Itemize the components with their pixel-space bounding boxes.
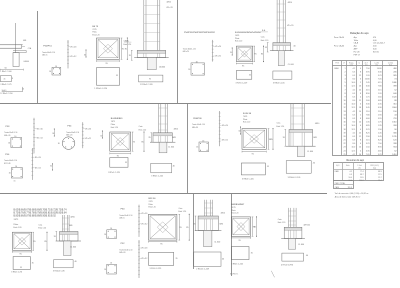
- svg-text:10.0: 10.0: [349, 177, 352, 179]
- svg-text:7.50: 7.50: [378, 143, 382, 145]
- footing B45-B60 title block: [235, 32, 262, 43]
- footing B4-B58 elevation rect: [108, 158, 128, 174]
- svg-text:20.5: 20.5: [360, 177, 363, 179]
- svg-text:(kg): (kg): [389, 64, 392, 66]
- pier B32-56 cap: [195, 216, 221, 231]
- pier B6-75 N.A. mark: [124, 39, 131, 42]
- pile detail P54 round round section: [58, 137, 75, 150]
- svg-text:9.70: 9.70: [366, 143, 370, 145]
- svg-text:Vol. de concreto: 4,04 (C-30): Vol. de concreto: 4,04 (C-30) = 10,82 m³: [335, 192, 369, 195]
- svg-text:16: 16: [104, 269, 106, 271]
- svg-text:Peso CA-60: Peso CA-60: [334, 45, 344, 48]
- footing B32-56 bottom dim 95: [149, 241, 177, 246]
- svg-text:B.05/.56: B.05/.56: [243, 113, 252, 115]
- svg-text:35: 35: [176, 258, 178, 260]
- svg-text:Está 1.20: Está 1.20: [261, 39, 269, 42]
- pile detail P54-P62 section square: [188, 61, 204, 75]
- panel divider horizontal lower: [0, 193, 327, 195]
- footing B32-56 plan square: [149, 214, 177, 240]
- svg-text:74: 74: [394, 79, 396, 81]
- svg-text:5.60: 5.60: [378, 96, 382, 98]
- footing B65 dim 95 right: [32, 232, 36, 250]
- pier B4-B58 left dim 35: [148, 133, 152, 142]
- svg-text:97.5: 97.5: [378, 174, 381, 176]
- svg-text:580: 580: [393, 132, 396, 134]
- svg-text:7.80: 7.80: [366, 114, 370, 116]
- svg-text:15: 15: [343, 118, 345, 120]
- pier B45 leader labels: [287, 2, 293, 27]
- svg-text:88: 88: [394, 100, 396, 102]
- svg-text:74/75: 74/75: [231, 207, 235, 209]
- pile detail P60 column elevation: [138, 205, 147, 237]
- svg-text:8.0: 8.0: [353, 143, 356, 145]
- footing B43 bottom dim 95: [231, 237, 250, 242]
- footing B65 dim 85: [44, 232, 47, 251]
- svg-text:Ø5 c/12: Ø5 c/12: [70, 56, 76, 58]
- footing B43 group title block: [231, 204, 245, 215]
- svg-text:Cota: Cota: [261, 36, 265, 39]
- svg-text:B.75/B.76/B.77/B.78/B.79/B.80/: B.75/B.76/B.77/B.78/B.79/B.80/B.81/B.82/…: [14, 212, 68, 214]
- svg-text:4.2: 4.2: [353, 68, 356, 70]
- panel divider vertical bottom-2: [231, 194, 233, 277]
- pile detail P52 column elevation: [138, 240, 147, 278]
- svg-text:Ø5 c/20: Ø5 c/20: [141, 213, 147, 215]
- steel table frame: [333, 61, 398, 156]
- svg-text:6.3: 6.3: [353, 75, 356, 77]
- svg-text:6.3: 6.3: [349, 174, 351, 176]
- svg-text:B6 75: B6 75: [92, 26, 98, 28]
- footing B32-56 title block: [149, 198, 157, 209]
- svg-text:12: 12: [359, 75, 361, 77]
- svg-text:6.3: 6.3: [353, 71, 356, 73]
- svg-text:Aço: Aço: [354, 36, 357, 39]
- svg-text:2064: 2064: [392, 107, 396, 109]
- svg-text:3 R6x3 C-175: 3 R6x3 C-175: [0, 84, 11, 86]
- svg-text:B43/B34/B67: B43/B34/B67: [231, 204, 245, 206]
- svg-text:88.3: 88.3: [378, 171, 381, 173]
- svg-text:9.45: 9.45: [378, 136, 382, 138]
- svg-text:POS: POS: [335, 62, 338, 64]
- svg-text:6.3: 6.3: [353, 96, 356, 98]
- pile detail P64/P36 column elevation: [219, 111, 228, 146]
- svg-text:4.60: 4.60: [378, 150, 382, 152]
- svg-text:40: 40: [173, 165, 175, 167]
- footing B32-56 dim 85: [186, 214, 189, 241]
- steel table data rows: [334, 67, 397, 156]
- beam detail lower dim with hook: [2, 87, 24, 92]
- svg-text:35: 35: [249, 75, 251, 77]
- footing B05-56 bottom dim 95: [242, 151, 266, 156]
- svg-text:CL 600: CL 600: [214, 241, 220, 243]
- svg-text:8Ø6: 8Ø6: [172, 137, 175, 139]
- svg-text:2: 2: [345, 71, 346, 73]
- footing B45 elevation rect: [236, 71, 252, 85]
- svg-text:Está 1.20: Está 1.20: [111, 126, 118, 129]
- svg-text:16: 16: [49, 71, 51, 73]
- pier B65 rebar bar detail: [53, 260, 73, 273]
- panel divider horizontal upper: [0, 103, 331, 105]
- footing B05-56 title block: [243, 113, 252, 124]
- svg-text:3 R7x5 C-129: 3 R7x5 C-129: [236, 82, 248, 84]
- svg-text:Está 1.20: Está 1.20: [139, 129, 147, 132]
- pile detail P64/P36 dim 34: [238, 127, 241, 135]
- svg-text:Cota: Cota: [278, 218, 282, 221]
- svg-text:6.3: 6.3: [353, 114, 356, 116]
- svg-text:AB.PILR 1: AB.PILR 1: [230, 272, 238, 275]
- pier B4-B58 column stub: [159, 142, 174, 153]
- svg-text:B32.56: B32.56: [149, 198, 157, 200]
- svg-text:CA50: CA50: [334, 67, 339, 70]
- panel divider vertical mid-band: [187, 104, 189, 194]
- svg-text:Ø5 c/20: Ø5 c/20: [85, 128, 91, 130]
- footing B32-56 elevation rect: [149, 252, 178, 270]
- svg-text:2.10: 2.10: [378, 111, 382, 113]
- svg-text:3 R7x5 C-129: 3 R7x5 C-129: [108, 172, 120, 174]
- svg-text:Ø5 c/12: Ø5 c/12: [141, 258, 147, 260]
- svg-text:3.95: 3.95: [366, 71, 370, 73]
- svg-text:Área de forma total: 109,35 m²: Área de forma total: 109,35 m²: [335, 195, 361, 198]
- svg-text:P64/P36: P64/P36: [193, 118, 202, 120]
- footing B45 plan square: [236, 46, 252, 62]
- svg-text:vem (4+4)x1,7: vem (4+4)x1,7: [373, 43, 385, 45]
- pier B05-56 left dim 35: [283, 130, 287, 147]
- svg-text:8: 8: [360, 71, 361, 73]
- svg-text:PESO(+10%): PESO(+10%): [370, 165, 379, 167]
- svg-text:4Ø10: 4Ø10: [315, 123, 319, 125]
- pile detail P50/P51 dim 34: [84, 50, 87, 58]
- svg-text:CA 600: CA 600: [159, 66, 165, 69]
- svg-text:Cota: Cota: [179, 207, 183, 210]
- svg-text:35: 35: [116, 75, 118, 77]
- svg-text:52: 52: [394, 89, 396, 91]
- footing B45 bottom dim 95: [236, 63, 252, 68]
- pier B65 leader labels: [69, 216, 75, 227]
- pier B6-75 column stub: [147, 58, 165, 70]
- pier B32-56 bars: [204, 200, 213, 216]
- pile detail P60 section square: [104, 228, 116, 238]
- svg-text:1.35: 1.35: [378, 125, 382, 127]
- svg-text:4.2: 4.2: [349, 171, 351, 173]
- svg-text:4,60: 4,60: [373, 40, 377, 42]
- beam detail bottom dim 50: [0, 68, 23, 71]
- pile detail P53 title: [4, 126, 17, 137]
- svg-text:Está 1.20: Está 1.20: [231, 212, 238, 215]
- pier B4-B58 leader labels: [172, 129, 178, 139]
- svg-text:Ø5 c/12: Ø5 c/12: [222, 140, 228, 142]
- footing B6-75 plan square: [97, 38, 120, 59]
- svg-text:Pilota: Pilota: [231, 209, 235, 212]
- svg-text:4.60: 4.60: [366, 118, 370, 120]
- svg-text:6,00: 6,00: [373, 49, 377, 51]
- svg-text:CA-B: CA-B: [354, 42, 359, 45]
- footing B4-B58 dim 85: [141, 132, 144, 152]
- svg-text:R12 1 Ø6: R12 1 Ø6: [4, 163, 11, 165]
- svg-text:40: 40: [293, 46, 295, 48]
- footing B4-B58 bottom dim 95: [110, 153, 131, 158]
- svg-text:16: 16: [22, 88, 24, 90]
- summary table text: [335, 164, 382, 189]
- footing B65 plan square: [12, 232, 31, 250]
- svg-text:40: 40: [306, 255, 308, 257]
- svg-text:14: 14: [359, 122, 361, 124]
- footing B4-B58 dim 95 right: [132, 132, 136, 151]
- svg-text:4Ø10: 4Ø10: [167, 1, 171, 3]
- svg-text:16: 16: [359, 86, 361, 88]
- svg-text:Está 1.20: Está 1.20: [38, 227, 46, 230]
- footing B43 cota label: [278, 218, 286, 224]
- svg-text:35: 35: [32, 263, 34, 265]
- svg-text:22: 22: [343, 143, 345, 145]
- svg-text:6.85: 6.85: [378, 100, 382, 102]
- steel list rows: [334, 36, 385, 56]
- svg-text:41: 41: [4, 78, 6, 80]
- svg-text:6Ø6 c/20: 6Ø6 c/20: [183, 51, 189, 53]
- pier B32-56 rebar bar detail: [194, 252, 221, 270]
- svg-text:Cota: Cota: [38, 223, 42, 226]
- svg-text:4: 4: [345, 79, 346, 81]
- pier B4-B58 cap: [150, 133, 175, 142]
- svg-text:16: 16: [110, 228, 112, 230]
- steel table header: [335, 61, 393, 66]
- svg-text:CL 600: CL 600: [288, 64, 294, 66]
- svg-text:2: 2: [360, 82, 361, 84]
- svg-text:6Ø6 c/20: 6Ø6 c/20: [119, 252, 125, 254]
- svg-text:23: 23: [343, 147, 345, 149]
- pile detail P54-P62 title: [183, 32, 216, 53]
- beam detail step lines: [13, 47, 26, 53]
- svg-text:7.05: 7.05: [378, 79, 382, 81]
- beam detail top flange lines: [0, 45, 23, 48]
- svg-text:Pilota: Pilota: [111, 123, 115, 126]
- svg-text:12.5: 12.5: [352, 129, 356, 131]
- pile detail P54 round column elevation: [82, 122, 91, 148]
- svg-text:985: 985: [393, 75, 396, 77]
- footing B65 bottom dim 95: [12, 251, 31, 256]
- svg-text:8: 8: [360, 118, 361, 120]
- svg-text:8.25: 8.25: [366, 132, 370, 134]
- pile detail P50 lower title: [4, 154, 17, 165]
- footing B45 dim 85: [261, 46, 264, 63]
- pier B65 bars: [62, 215, 69, 232]
- svg-text:Ø5 c/20: Ø5 c/20: [222, 125, 228, 127]
- pier B65 left dim 35: [54, 232, 58, 242]
- pile detail P50/P51 column elevation: [67, 40, 76, 68]
- svg-text:74/75: 74/75: [92, 29, 96, 31]
- svg-text:4.2: 4.2: [353, 154, 356, 156]
- svg-text:6.3: 6.3: [353, 118, 356, 120]
- pier B43 cap: [281, 227, 305, 238]
- pile detail P50 lower dim 34: [50, 163, 53, 170]
- svg-text:904: 904: [393, 147, 396, 149]
- footing B6-75 elevation rect: [94, 68, 119, 90]
- svg-text:Aço: Aço: [354, 45, 357, 48]
- svg-text:1.20: 1.20: [378, 93, 382, 95]
- svg-text:B4-B58/B61: B4-B58/B61: [111, 118, 124, 120]
- svg-text:7.80: 7.80: [378, 86, 382, 88]
- svg-text:CA 600: CA 600: [23, 60, 29, 63]
- svg-text:10: 10: [359, 147, 361, 149]
- svg-text:191.3: 191.3: [348, 187, 352, 189]
- svg-text:CL 600: CL 600: [168, 146, 174, 148]
- pile detail P54-P62 column elevation: [212, 40, 221, 62]
- footing B43 dim 85: [254, 216, 257, 236]
- svg-text:79.4: 79.4: [378, 180, 381, 182]
- svg-text:4Ø7100: 4Ø7100: [304, 225, 310, 227]
- footing B05-56 plan square: [242, 129, 266, 150]
- svg-text:8Ø6: 8Ø6: [69, 225, 72, 227]
- stray leader mark bottom: [271, 271, 274, 278]
- svg-text:4: 4: [360, 129, 361, 131]
- svg-text:4.15: 4.15: [366, 89, 370, 91]
- svg-text:B.65/B.66/B.67/B.68/B.69/B.70/: B.65/B.66/B.67/B.68/B.69/B.70/B.71/B.72/…: [14, 209, 68, 211]
- svg-text:120.2: 120.2: [359, 180, 363, 182]
- svg-text:Ø5 c/12: Ø5 c/12: [35, 167, 41, 169]
- svg-text:FSP 17: FSP 17: [354, 54, 360, 56]
- panel divider vertical top-middle: [177, 0, 179, 104]
- svg-text:4: 4: [360, 150, 361, 152]
- pile detail P52 section square: [104, 263, 116, 274]
- svg-text:4.15: 4.15: [378, 82, 382, 84]
- svg-text:CL 600: CL 600: [298, 244, 304, 246]
- svg-text:1310: 1310: [392, 122, 396, 124]
- svg-text:Ø5 c/15: Ø5 c/15: [287, 25, 293, 27]
- footing B65 cota label: [38, 223, 46, 229]
- svg-text:6.3: 6.3: [353, 136, 356, 138]
- svg-text:12 R6x5 C-150: 12 R6x5 C-150: [0, 93, 12, 95]
- svg-text:16: 16: [110, 263, 112, 265]
- svg-text:74/75: 74/75: [111, 121, 115, 123]
- svg-text:8Ø6: 8Ø6: [313, 137, 316, 139]
- svg-text:16: 16: [14, 181, 16, 183]
- svg-text:5.60: 5.60: [366, 100, 370, 102]
- footing B6-75 dim 95 right: [121, 38, 125, 59]
- svg-text:16: 16: [15, 166, 17, 168]
- svg-text:12.5: 12.5: [352, 86, 356, 88]
- svg-text:40: 40: [222, 258, 224, 260]
- svg-text:5: 5: [345, 82, 346, 84]
- svg-text:35: 35: [125, 162, 127, 164]
- svg-text:2.45: 2.45: [378, 132, 382, 134]
- svg-text:Ø5 c/15: Ø5 c/15: [167, 7, 173, 9]
- svg-text:74/75: 74/75: [14, 219, 19, 221]
- svg-text:da T: da T: [365, 62, 368, 64]
- svg-text:3.95: 3.95: [378, 118, 382, 120]
- svg-text:Resumo do aço: Resumo do aço: [347, 159, 365, 162]
- pier B65 cap: [57, 232, 82, 242]
- svg-text:2Ø6 c/5: 2Ø6 c/5: [119, 218, 124, 220]
- pier B43 rebar bar detail: [281, 253, 304, 266]
- svg-text:Está 1.20: Está 1.20: [92, 33, 99, 36]
- svg-text:N.A.: N.A.: [125, 39, 129, 42]
- svg-text:3 R10x5 C-96: 3 R10x5 C-96: [53, 271, 65, 273]
- svg-text:9: 9: [345, 96, 346, 98]
- svg-text:62: 62: [394, 150, 396, 152]
- svg-text:Está 1.20: Está 1.20: [149, 206, 156, 209]
- pier B43 leader labels: [304, 225, 310, 227]
- svg-text:16: 16: [188, 69, 190, 71]
- svg-text:Ø5 c/12: Ø5 c/12: [37, 137, 43, 139]
- svg-text:3.30: 3.30: [366, 104, 370, 106]
- svg-text:4.35: 4.35: [378, 104, 382, 106]
- svg-text:3 R8x5 C-105: 3 R8x5 C-105: [151, 175, 163, 177]
- svg-text:N.A.: N.A.: [262, 29, 266, 32]
- svg-text:6.85: 6.85: [366, 125, 370, 127]
- svg-text:4 R7x5 S-7R6: 4 R7x5 S-7R6: [281, 264, 293, 266]
- pier B05-56 column stub: [297, 146, 313, 156]
- pile detail P52 title: [119, 243, 132, 254]
- svg-text:480: 480: [393, 68, 396, 70]
- svg-text:Ø5 c/20: Ø5 c/20: [35, 157, 41, 159]
- svg-text:77.4: 77.4: [360, 171, 363, 173]
- pile detail P64/P36 section square: [196, 140, 208, 151]
- svg-text:9.70: 9.70: [378, 154, 382, 156]
- footing B32-56 dim 95 right: [179, 214, 183, 240]
- svg-text:7.50: 7.50: [366, 68, 370, 70]
- svg-text:8.90: 8.90: [378, 147, 382, 149]
- svg-text:Está 1.20: Está 1.20: [179, 210, 187, 213]
- footing B4-B58 title block: [111, 118, 124, 129]
- svg-text:1410: 1410: [392, 154, 396, 156]
- svg-text:25.7: 25.7: [378, 177, 381, 179]
- svg-text:3.70: 3.70: [366, 129, 370, 131]
- footing B4-B58 cota label: [139, 125, 147, 131]
- pile detail P60 title: [119, 209, 132, 220]
- svg-text:5.15: 5.15: [378, 89, 382, 91]
- pier B32-56 left dim 35: [193, 216, 196, 231]
- svg-text:P54/P55/P56/P58/P59/P60/P62: P54/P55/P56/P58/P59/P60/P62: [184, 32, 216, 34]
- svg-text:88.7: 88.7: [360, 174, 363, 176]
- svg-text:16: 16: [202, 140, 204, 142]
- svg-text:3 R6x5 C-96: 3 R6x5 C-96: [11, 272, 22, 274]
- svg-text:Relação do aço: Relação do aço: [350, 31, 369, 35]
- svg-text:Sim 60: Sim 60: [373, 51, 379, 53]
- pile detail P50 lower section square: [9, 166, 23, 178]
- svg-text:Está 1.20: Está 1.20: [14, 226, 22, 229]
- svg-text:3: 3: [345, 75, 346, 77]
- svg-text:Pilota: Pilota: [92, 31, 96, 34]
- pier B05-56 bars: [291, 104, 305, 130]
- svg-text:16: 16: [104, 234, 106, 236]
- svg-text:6: 6: [345, 86, 346, 88]
- svg-text:95: 95: [20, 267, 22, 269]
- svg-text:13: 13: [343, 111, 345, 113]
- svg-text:16: 16: [343, 122, 345, 124]
- svg-text:24: 24: [359, 89, 361, 91]
- svg-text:CA50: CA50: [335, 186, 339, 189]
- footing B6-75 dim 85: [125, 38, 128, 60]
- pier B45 rebar bar detail: [273, 71, 292, 85]
- pile detail P50/P51 title: [42, 46, 55, 57]
- svg-text:14/25: 14/25: [235, 35, 239, 37]
- footing B32-56 cota label: [179, 207, 187, 213]
- svg-text:40: 40: [313, 163, 315, 165]
- svg-text:1520: 1520: [392, 96, 396, 98]
- footing B65 group long title: [14, 209, 68, 228]
- svg-text:120: 120: [393, 140, 396, 142]
- svg-text:6.30: 6.30: [366, 86, 370, 88]
- svg-text:Cota: Cota: [277, 122, 281, 125]
- svg-text:10.0: 10.0: [352, 147, 356, 149]
- svg-text:Ø5 c/20: Ø5 c/20: [70, 46, 76, 48]
- svg-text:12: 12: [359, 100, 361, 102]
- pile detail P54 round title: [66, 126, 79, 137]
- svg-text:CA50: CA50: [335, 170, 339, 173]
- svg-text:1.75: 1.75: [378, 122, 382, 124]
- footing B05-56 dim 85: [270, 128, 273, 150]
- svg-text:14: 14: [343, 114, 345, 116]
- svg-text:12.5: 12.5: [352, 107, 356, 109]
- pier B6-75 left dim 35: [129, 50, 133, 60]
